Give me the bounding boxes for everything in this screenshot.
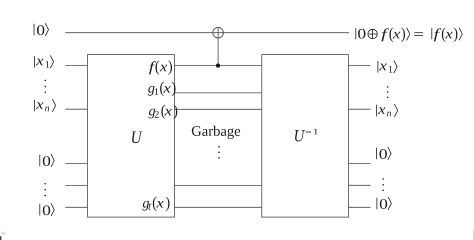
label output equation |0+f(x)> = |f(x)> (355, 28, 357, 39)
label ket |x1> left (34, 56, 36, 68)
wire x1 left stub (65, 65, 87, 67)
wire x1 right stub (349, 65, 371, 67)
vdots right lower (382, 178, 384, 191)
label ket |0> right middle (376, 148, 378, 160)
box U (88, 55, 175, 218)
box U inverse (262, 55, 349, 218)
label g1(x) (148, 82, 176, 97)
CNOT vertical wire (217, 27, 219, 65)
label gt(x) (142, 197, 169, 212)
label f(x) (149, 60, 172, 75)
label ket |xn> right (376, 105, 378, 117)
wire |0> ancilla left stub (65, 163, 87, 165)
vdots left lower (44, 183, 46, 196)
wire gt(x) left stub (65, 206, 87, 208)
frame remnant bottom left (0, 236, 1, 240)
wire gt(x) between boxes (174, 206, 261, 208)
label ket |xn> left (34, 100, 36, 112)
CNOT control dot (216, 64, 220, 68)
vdots left upper (45, 80, 47, 93)
label g2(x) (149, 104, 178, 119)
label ket |0> left middle (39, 155, 41, 167)
oplus symbol in equation (368, 29, 377, 38)
vdots right upper (387, 86, 389, 98)
wire gt(x) right stub (349, 206, 371, 208)
label ket |x1> right (377, 61, 379, 73)
label ket |0> left bottom (39, 204, 41, 216)
vdots garbage (218, 146, 220, 159)
wire garbage mid right stub (349, 184, 371, 186)
right hand side ket (431, 28, 433, 39)
op-amp box label U (132, 131, 142, 143)
wire garbage mid between boxes (174, 184, 261, 186)
wire xn left stub (65, 108, 87, 110)
CNOT target oplus circle (213, 27, 224, 38)
frame remnant bottom right (472, 230, 474, 240)
label ket |0> right bottom (376, 198, 378, 210)
wire top ancilla |0> line (65, 32, 349, 34)
wire |0> ancilla right stub (349, 162, 371, 164)
wire xn right stub (349, 108, 371, 110)
box label U inverse (295, 130, 305, 141)
equals sign (414, 32, 423, 34)
label ket |0> top left (33, 24, 35, 36)
wire g1(x) between boxes (174, 92, 261, 94)
wire g2(x) between boxes (174, 108, 261, 110)
wire f(x) between boxes (174, 65, 261, 67)
wire garbage mid left stub (65, 185, 87, 187)
label Garbage (192, 126, 240, 139)
